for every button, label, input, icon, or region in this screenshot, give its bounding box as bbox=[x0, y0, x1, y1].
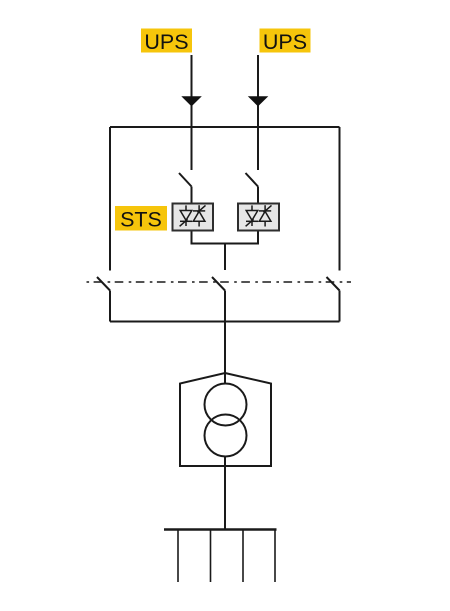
svg-text:UPS: UPS bbox=[144, 30, 188, 54]
svg-text:UPS: UPS bbox=[263, 30, 307, 54]
svg-text:STS: STS bbox=[120, 208, 162, 232]
